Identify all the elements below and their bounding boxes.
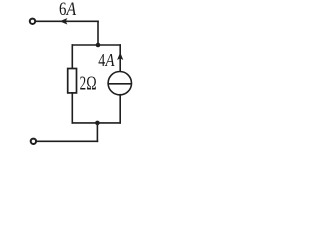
svg-text:Ω: Ω [86,74,96,95]
svg-text:A: A [105,50,115,70]
svg-text:A: A [65,0,77,20]
svg-text:4: 4 [98,50,105,70]
svg-text:6: 6 [59,0,66,20]
svg-text:2: 2 [80,74,87,95]
